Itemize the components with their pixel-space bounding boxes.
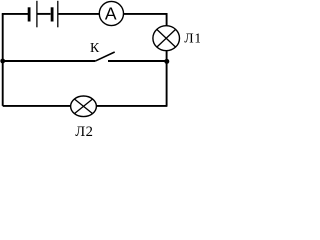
- wire right vertical lower: [166, 50, 168, 106]
- wire bottom right: [96, 105, 167, 107]
- switch K blade: [95, 52, 115, 61]
- battery cell 1: [29, 1, 37, 28]
- label K: [90, 40, 100, 55]
- svg-text:Л1: Л1: [184, 31, 200, 46]
- wire bottom left: [3, 105, 71, 107]
- wire left vertical: [2, 13, 4, 106]
- lamp L1: [153, 26, 180, 51]
- svg-text:A: A: [105, 4, 117, 24]
- svg-text:Л2: Л2: [75, 124, 93, 139]
- ammeter A: [99, 1, 123, 25]
- wire top segment battery left: [2, 13, 28, 15]
- label L1: [184, 31, 202, 46]
- wire middle right: [108, 60, 167, 62]
- wire right vertical upper: [166, 13, 168, 26]
- wire battery to ammeter: [58, 13, 99, 15]
- battery cell 2: [52, 1, 58, 28]
- lamp L2: [71, 96, 97, 117]
- wire between battery cells: [38, 13, 51, 15]
- label L2: [75, 124, 93, 140]
- svg-text:К: К: [90, 40, 100, 55]
- wire middle left: [3, 60, 95, 62]
- node junction right: [164, 59, 169, 64]
- wire ammeter to top right corner: [124, 13, 168, 15]
- node junction left: [0, 59, 5, 64]
